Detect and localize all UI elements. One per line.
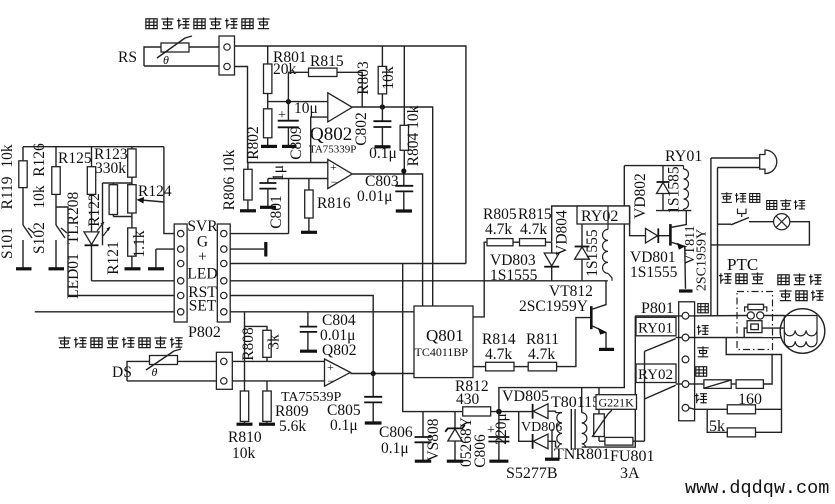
resistor R125: [87, 147, 95, 232]
svg-text:P801: P801: [641, 300, 674, 317]
wire Q801 output to R814: [473, 366, 486, 368]
svg-text:+: +: [330, 160, 337, 174]
resistor R808 3k: [240, 312, 283, 362]
resistor R123: [128, 147, 136, 184]
svg-text:Q801: Q801: [426, 326, 464, 345]
wire RST row to comparator output: [230, 296, 373, 374]
capacitor C806 0.1u: [379, 412, 432, 461]
resistor R810 10k: [228, 326, 262, 462]
defrost thermostat (boxed diagonal): [704, 380, 731, 389]
wire op2 inv to P802 SVR feedback: [288, 179, 290, 234]
svg-text:TA75339P: TA75339P: [309, 144, 356, 156]
svg-text:10k: 10k: [31, 185, 48, 209]
ground 220u: [489, 460, 508, 463]
wire SET row to Q801: [230, 311, 416, 313]
zener VS808 05268Y: [425, 412, 489, 468]
svg-text:TC4011BP: TC4011BP: [415, 345, 469, 359]
PTC starter component: [745, 304, 785, 319]
switch S101: [23, 225, 34, 268]
relay coil RY02: [603, 206, 613, 281]
ground VS808: [447, 460, 463, 463]
svg-text:VS808: VS808: [425, 418, 442, 461]
wire G row right to bar: [230, 248, 264, 250]
svg-text:R125: R125: [58, 150, 92, 167]
ground R816: [301, 231, 317, 234]
wire brown row to heater chain: [689, 383, 704, 385]
capacitor C805 0.1u: [327, 374, 382, 435]
wire black row left: [635, 315, 682, 317]
wire RY01 bottom rail to VT811 collector: [656, 210, 691, 212]
ground C803: [396, 209, 412, 212]
svg-text:10k: 10k: [380, 66, 397, 90]
resistor R801: [264, 46, 307, 102]
wire primary bottom to P801 black column: [582, 316, 636, 447]
wire DS loop: [127, 361, 216, 381]
svg-text:1S1555: 1S1555: [584, 229, 601, 277]
resistor R816: [305, 179, 351, 232]
compressor motor: [780, 309, 825, 354]
svg-text:R815: R815: [310, 53, 344, 70]
op-amp U2 TA75539P: [325, 359, 351, 388]
wire op3 output to Q801: [350, 373, 416, 375]
wire op2 output: [352, 171, 422, 306]
wire RY02 rail: [552, 206, 630, 242]
transformer T80115 core: [571, 409, 575, 450]
switch S102: [56, 225, 67, 268]
label RY02 contact box: [636, 364, 676, 383]
label PTC 起动器: [719, 255, 764, 284]
svg-text:SET: SET: [189, 298, 217, 315]
svg-text:R121: R121: [105, 241, 122, 275]
svg-text:LED: LED: [187, 266, 217, 283]
resistor R803: [355, 46, 397, 107]
svg-text:R816: R816: [317, 195, 351, 212]
junction op2 out node: [401, 168, 406, 173]
wire black row to starter: [689, 315, 748, 317]
label S101 R119 10k (rotated): [0, 144, 16, 259]
svg-text:R122: R122: [86, 193, 103, 227]
diode VD806: [519, 412, 563, 449]
resistor R119: [19, 147, 27, 225]
connector P801: [679, 302, 695, 421]
relay contact RY01: [645, 338, 683, 352]
resistor R811 4.7k: [526, 318, 591, 371]
svg-text:TNR801: TNR801: [554, 446, 610, 463]
svg-text:5.6k: 5.6k: [279, 418, 306, 435]
wire SVR row right: [230, 233, 288, 235]
wire RS loop: [144, 47, 219, 66]
transformer T80115 secondary winding: [552, 413, 562, 459]
svg-text:C806: C806: [472, 434, 489, 468]
svg-text:θ: θ: [152, 365, 158, 379]
junction op1 out / R803 / C802: [380, 104, 385, 109]
label 压缩机 电动机 compressor motor: [778, 273, 824, 300]
svg-text:+: +: [198, 249, 207, 266]
svg-text:Q802: Q802: [322, 342, 356, 359]
ground C802: [375, 145, 391, 148]
connector P802 left column: [174, 224, 187, 322]
svg-text:R806 10k: R806 10k: [221, 149, 238, 210]
relay coil RY01: [684, 166, 689, 211]
ground R121: [125, 267, 141, 270]
overload protector: [744, 321, 784, 338]
svg-text:4.7k: 4.7k: [528, 346, 555, 363]
wire DS bottom to op3 - input: [232, 380, 324, 382]
wire G row left: [156, 248, 174, 250]
svg-text:430: 430: [456, 391, 480, 408]
ground S101: [16, 267, 32, 270]
wire DS top to op3 + input: [232, 360, 324, 362]
svg-text:10k: 10k: [232, 445, 256, 462]
resistor R815 (feedback): [288, 53, 362, 107]
resistor R812 430: [455, 378, 533, 416]
op-amp U-A (Q802 comparator 1): [328, 93, 352, 122]
svg-text:10k: 10k: [0, 144, 16, 168]
svg-text:P802: P802: [188, 324, 221, 341]
ground R806: [240, 209, 256, 212]
junction DC node: [496, 409, 502, 415]
resistor 5k: [707, 409, 781, 437]
connector DS (2-pin): [216, 352, 232, 389]
wire R122 top tap down to LED cathode: [102, 183, 104, 245]
label 黑 black: [698, 304, 709, 313]
svg-text:C802: C802: [353, 112, 370, 146]
svg-text:+: +: [327, 360, 334, 374]
wire LED row bus: [230, 280, 608, 282]
wire op1 output: [352, 107, 433, 306]
ground P802 G-row left: [148, 249, 164, 269]
svg-text:VD805: VD805: [502, 388, 549, 405]
svg-text:FU801: FU801: [610, 448, 654, 465]
label S102 10k R126 (rotated): [31, 143, 48, 254]
wire op2 inverting input net: [268, 178, 328, 180]
thermistor DS: [146, 349, 181, 379]
capacitor C804 0.01u: [300, 312, 357, 359]
wire S102 to RST row: [56, 207, 174, 296]
svg-text:0.01μ: 0.01μ: [357, 188, 392, 205]
ground R810: [237, 423, 253, 426]
resistor R802: [245, 102, 272, 160]
label 红 red: [695, 393, 707, 403]
wire green row to motor: [689, 337, 781, 339]
svg-text:1.1k: 1.1k: [131, 230, 148, 257]
PTC starter dash-dot box: [737, 292, 773, 350]
ground C801: [260, 206, 276, 209]
resistor R122: [86, 183, 118, 227]
svg-text:RS: RS: [118, 49, 137, 66]
varistor TNR801 G221K: [554, 388, 637, 463]
label Q802 TA75339P: [309, 124, 356, 156]
svg-text:1S1585: 1S1585: [666, 166, 683, 214]
ground VT811: [679, 289, 693, 292]
diode VD801 1S1555: [630, 228, 678, 281]
junction op3 out: [371, 371, 376, 376]
capacitor C809 10u: [278, 100, 318, 160]
resistor heater: [726, 338, 772, 389]
svg-text:0.1μ: 0.1μ: [381, 440, 409, 457]
svg-text:S5277B: S5277B: [506, 465, 558, 482]
wire node R801/R802/C809 to op-amp +: [268, 101, 328, 103]
capacitor C801 1u: [259, 165, 287, 229]
resistor R815b 4.7k: [518, 206, 552, 246]
wire Vcc branch down to supply bus: [403, 264, 463, 412]
svg-text:C801: C801: [268, 195, 285, 229]
wire S101 to SET row: [35, 311, 174, 313]
ground C809: [282, 145, 297, 148]
wire SVR wiper line: [164, 147, 174, 234]
svg-text:RY01: RY01: [638, 321, 673, 337]
ground C804: [300, 350, 317, 353]
svg-text:−: −: [331, 175, 338, 189]
svg-text:RY01: RY01: [665, 148, 702, 165]
svg-text:VD802: VD802: [632, 173, 649, 219]
svg-text:DS: DS: [112, 364, 132, 381]
wire RY01 rail: [624, 165, 683, 167]
label R123 330k: [94, 146, 128, 177]
svg-text:4.7k: 4.7k: [485, 346, 512, 363]
label 茶 brown: [696, 367, 707, 377]
resistor R814 4.7k: [482, 331, 528, 371]
svg-text:C809: C809: [288, 126, 305, 160]
wire mains line B: [717, 168, 719, 316]
svg-text:3A: 3A: [620, 465, 640, 482]
transistor VT811 2SC1959Y: [670, 211, 709, 292]
ground R802: [261, 145, 277, 148]
svg-text:VD806: VD806: [521, 420, 562, 435]
svg-text:1S1555: 1S1555: [630, 264, 678, 281]
ground transformer center tap: [545, 458, 560, 461]
ground VT812: [599, 348, 614, 351]
resistor R809 5.6k: [263, 381, 309, 435]
svg-text:10μ: 10μ: [294, 100, 318, 117]
svg-text:Q802: Q802: [310, 124, 352, 145]
label 灯开关 light switch: [721, 192, 760, 202]
svg-text:0.1μ: 0.1μ: [330, 417, 358, 434]
svg-text:C806: C806: [379, 424, 413, 441]
label 箱内灯 cabinet lamp: [767, 199, 806, 209]
svg-text:R126: R126: [31, 143, 48, 177]
wire LED01 to LED row: [92, 280, 175, 282]
svg-text:220μ: 220μ: [493, 413, 510, 445]
connector RS (2-pin): [219, 36, 235, 75]
AC plug: [711, 150, 777, 174]
svg-text:RY02: RY02: [638, 367, 673, 383]
wire op1 inverting input tie to sensor node: [311, 117, 328, 162]
svg-text:R808: R808: [240, 327, 257, 361]
svg-text:4.7k: 4.7k: [485, 221, 512, 238]
capacitor C803 0.01u: [357, 173, 413, 210]
resistor 160: [727, 355, 781, 414]
ground C806: [415, 460, 431, 463]
svg-text:T80115: T80115: [551, 394, 600, 411]
diode VD803 1S1555: [490, 242, 559, 284]
svg-text:R803: R803: [355, 61, 372, 95]
wire VD801 feed: [630, 206, 646, 236]
wire left block top rail: [23, 146, 164, 148]
svg-text:www.dqdqw.com: www.dqdqw.com: [685, 478, 829, 499]
wire R122/R124 bottom joint: [113, 216, 132, 218]
svg-text:R802: R802: [245, 126, 262, 160]
svg-text:SVR: SVR: [187, 218, 218, 235]
resistor R804 10k: [400, 46, 422, 171]
diode VD804 1S1555: [554, 206, 602, 281]
ground S102: [49, 267, 65, 270]
fuse FU801 3A: [599, 437, 654, 482]
svg-text:20k: 20k: [273, 61, 297, 78]
svg-text:R119: R119: [0, 176, 16, 209]
svg-text:2SC1959Y: 2SC1959Y: [519, 298, 588, 315]
junction node: [286, 99, 291, 104]
label RY02 box: [577, 206, 630, 225]
svg-text:PTC: PTC: [727, 255, 758, 274]
svg-text:R804 10k: R804 10k: [405, 105, 422, 166]
transformer T80115 primary winding: [551, 388, 600, 448]
wire fuse to contact pivots: [644, 351, 646, 441]
transistor VT812 2SC1959Y: [519, 281, 606, 349]
wire Q801 pin to R805 node: [473, 242, 484, 317]
LED LED01: [84, 222, 110, 281]
wire DC node up over to relay rail: [499, 166, 624, 412]
svg-text:S102: S102: [31, 222, 48, 254]
resistor R126: [52, 147, 60, 225]
label 绿 green: [697, 325, 709, 335]
svg-text:+: +: [278, 108, 286, 123]
svg-text:1S1555: 1S1555: [490, 267, 538, 284]
wire RS bottom to sensor divider node: [235, 67, 328, 163]
wire red row: [689, 408, 727, 410]
lamp (circle with X): [774, 214, 790, 230]
ground bar G right (vertical tick): [264, 242, 267, 257]
light switch: [718, 209, 774, 225]
diode VD805: [502, 388, 556, 419]
thermistor RS: [157, 36, 192, 67]
label RY01 contact box: [636, 317, 676, 336]
resistor R805 4.7k: [483, 206, 520, 246]
svg-text:4.7k: 4.7k: [520, 221, 547, 238]
svg-text:VD804: VD804: [554, 210, 571, 256]
svg-text:R810: R810: [228, 429, 262, 446]
svg-text:3k: 3k: [266, 334, 283, 350]
relay contact RY02: [645, 384, 683, 399]
ground R809: [259, 423, 275, 426]
wire top rail Vcc (y=46): [235, 46, 466, 264]
connector P802 right column: [217, 224, 230, 322]
diode VD802 1S1585: [632, 166, 683, 219]
IC Q801 TC4011BP: [414, 306, 473, 378]
svg-text:θ: θ: [163, 53, 169, 67]
svg-text:R124: R124: [138, 183, 172, 200]
label: 冷冻室温度传感器 (freezer compartment temperature sensor): [58, 336, 182, 347]
potentiometer R124: [128, 183, 172, 228]
svg-text:S101: S101: [0, 227, 16, 259]
label 黄 yellow: [697, 346, 708, 357]
label: 冷藏室温度传感器 (fridge compartment temperature sensor): [146, 17, 270, 28]
svg-text:330k: 330k: [95, 160, 126, 177]
ground C805: [365, 421, 382, 424]
svg-text:2SC1959Y: 2SC1959Y: [695, 229, 710, 291]
svg-text:−: −: [328, 374, 335, 388]
svg-text:RY02: RY02: [581, 208, 618, 225]
wire R122/R124 top joint: [103, 182, 132, 184]
capacitor C802 0.1u: [353, 107, 397, 162]
op-amp U-B (Q802 comparator 2): [328, 159, 352, 189]
resistor R121 1.1k: [105, 228, 148, 275]
wire + row (Vcc): [230, 263, 466, 265]
connector P802 labels: [187, 218, 218, 315]
wire lamp return: [711, 222, 810, 245]
svg-text:G221K: G221K: [599, 395, 635, 409]
resistor R806 10k: [221, 149, 252, 210]
wire mains line A: [710, 158, 712, 316]
capacitor 220u electrolytic: [487, 412, 510, 461]
